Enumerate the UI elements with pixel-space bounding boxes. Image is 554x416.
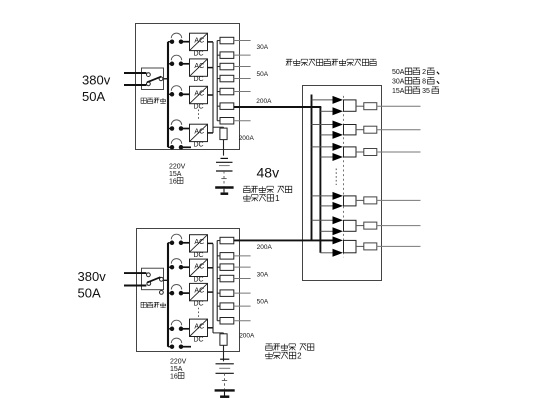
svg-text:220V: 220V (169, 163, 186, 170)
svg-text:AC: AC (194, 263, 204, 270)
svg-text:50A: 50A (257, 299, 269, 306)
svg-text:AC: AC (194, 239, 204, 246)
svg-text:50A: 50A (82, 89, 105, 104)
svg-text:DC: DC (193, 301, 203, 308)
svg-text:AC: AC (194, 91, 204, 98)
svg-text:15A: 15A (392, 88, 405, 95)
svg-text:DC: DC (193, 276, 203, 283)
svg-text:15A: 15A (169, 171, 182, 178)
svg-text:AC: AC (194, 128, 204, 135)
svg-text:200A: 200A (239, 333, 255, 340)
svg-text:2: 2 (422, 69, 426, 76)
svg-text:DC: DC (193, 51, 203, 58)
svg-text:AC: AC (194, 63, 204, 70)
svg-text:380v: 380v (78, 269, 107, 284)
svg-text:8: 8 (422, 79, 426, 86)
svg-text:200A: 200A (257, 244, 273, 251)
svg-text:AC: AC (194, 323, 204, 330)
svg-text:200A: 200A (239, 135, 255, 142)
svg-text:AC: AC (194, 288, 204, 295)
svg-text:30A: 30A (257, 44, 269, 51)
svg-text:1: 1 (275, 194, 280, 203)
svg-text:35: 35 (422, 88, 430, 95)
svg-text:30A: 30A (392, 79, 405, 86)
svg-text:16: 16 (170, 373, 178, 380)
svg-text:AC: AC (194, 37, 204, 44)
svg-text:220V: 220V (170, 358, 187, 365)
svg-text:DC: DC (193, 336, 203, 343)
svg-text:15A: 15A (170, 366, 183, 373)
svg-text:DC: DC (193, 142, 203, 149)
svg-text:50A: 50A (392, 69, 405, 76)
svg-text:200A: 200A (256, 98, 272, 105)
svg-text:DC: DC (193, 252, 203, 259)
svg-text:2: 2 (297, 351, 302, 360)
svg-text:16: 16 (169, 178, 177, 185)
svg-text:50A: 50A (257, 71, 269, 78)
svg-text:48v: 48v (257, 165, 280, 181)
svg-text:30A: 30A (257, 272, 269, 279)
svg-text:380v: 380v (82, 73, 111, 88)
svg-text:DC: DC (193, 76, 203, 83)
svg-text:50A: 50A (78, 286, 101, 301)
